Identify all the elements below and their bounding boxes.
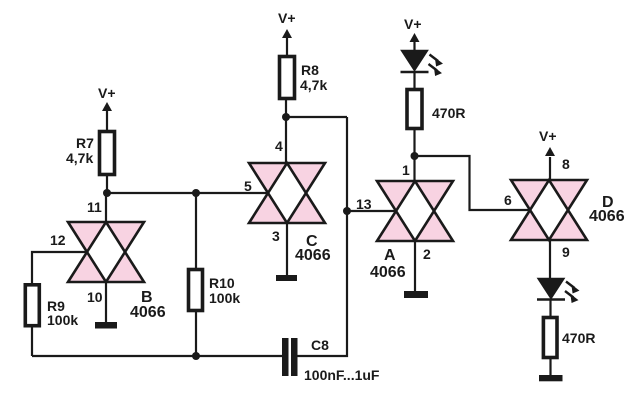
svg-text:V+: V+ [278, 10, 296, 26]
svg-text:470R: 470R [562, 330, 595, 346]
svg-text:V+: V+ [404, 16, 422, 32]
svg-text:4,7k: 4,7k [66, 150, 93, 166]
svg-text:4066: 4066 [370, 264, 406, 281]
svg-text:4,7k: 4,7k [300, 77, 327, 93]
svg-text:9: 9 [562, 244, 570, 260]
svg-text:470R: 470R [432, 105, 465, 121]
svg-text:4066: 4066 [295, 247, 331, 264]
svg-text:8: 8 [562, 156, 570, 172]
svg-text:R8: R8 [301, 62, 319, 78]
svg-text:4066: 4066 [130, 304, 166, 321]
svg-text:11: 11 [87, 199, 102, 215]
svg-text:R10: R10 [209, 275, 235, 291]
svg-text:10: 10 [87, 289, 103, 305]
svg-text:13: 13 [356, 196, 372, 212]
svg-text:R7: R7 [76, 135, 94, 151]
svg-text:4: 4 [275, 138, 283, 154]
svg-text:V+: V+ [539, 128, 557, 144]
svg-text:A: A [384, 247, 396, 264]
svg-text:C8: C8 [311, 337, 329, 353]
svg-text:6: 6 [504, 192, 512, 208]
svg-text:2: 2 [423, 246, 431, 262]
svg-text:5: 5 [244, 178, 252, 194]
svg-text:4066: 4066 [589, 208, 625, 225]
svg-text:100nF...1uF: 100nF...1uF [304, 367, 380, 383]
svg-text:100k: 100k [209, 290, 240, 306]
svg-text:3: 3 [272, 228, 280, 244]
svg-text:V+: V+ [98, 85, 116, 101]
svg-text:12: 12 [50, 232, 66, 248]
svg-text:1: 1 [402, 162, 410, 178]
svg-text:100k: 100k [47, 312, 78, 328]
